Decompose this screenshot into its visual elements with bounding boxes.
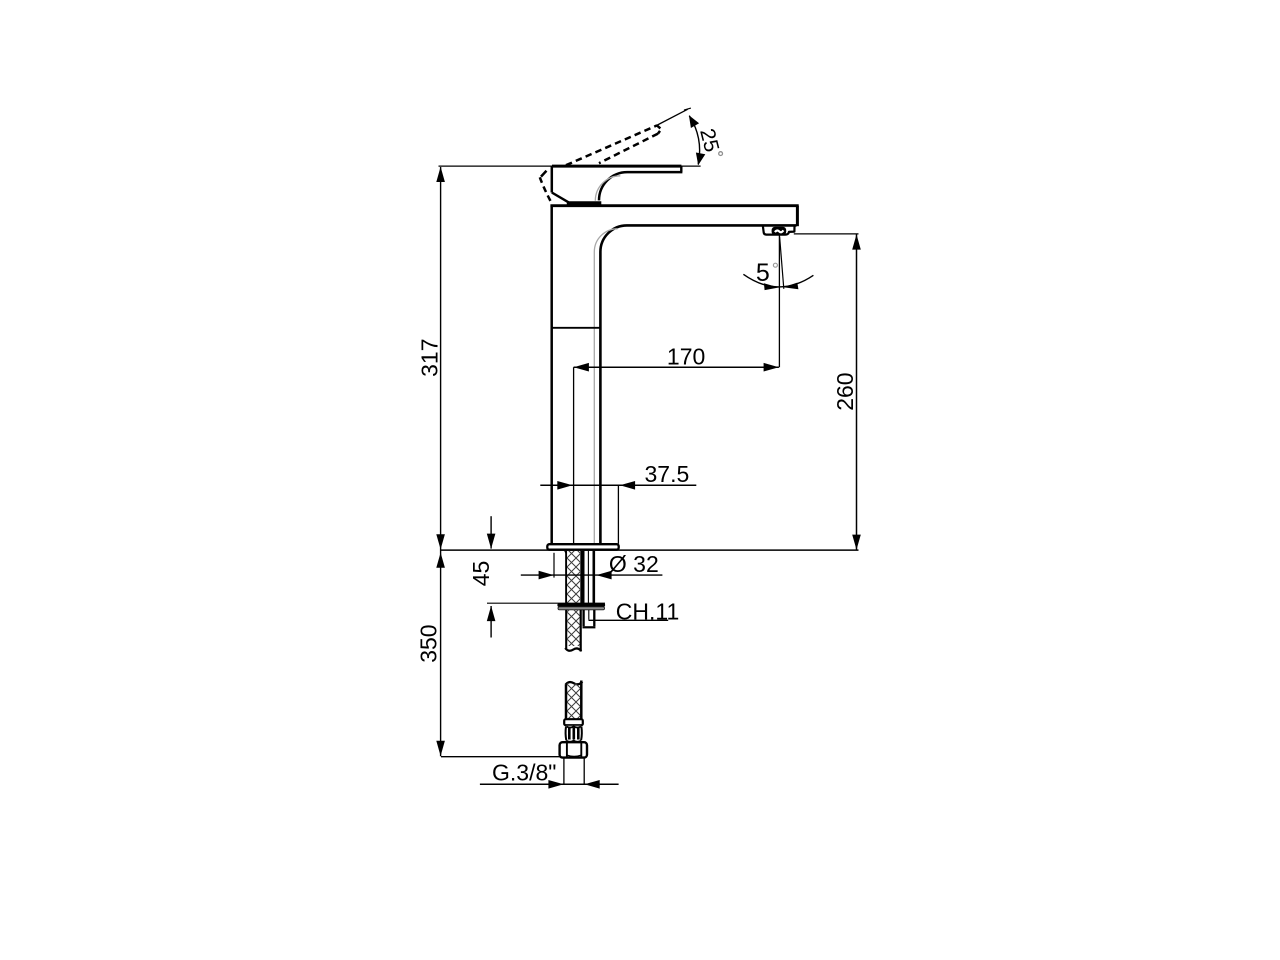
shank hose break wave <box>565 648 581 651</box>
45 dimension line upper segment <box>490 516 492 548</box>
170 right arrowhead <box>764 363 779 372</box>
diameter 32 right arrowhead <box>596 571 611 580</box>
25 degree arc arrowhead upper <box>689 115 699 128</box>
37.5 label <box>645 461 690 487</box>
svg-text:37.5: 37.5 <box>645 461 690 487</box>
lower hose right edge <box>580 681 583 720</box>
faucet handle lever top edge <box>552 165 681 168</box>
350 label <box>416 624 442 662</box>
diameter 32 label <box>609 551 659 577</box>
handle highlight line <box>595 176 620 201</box>
25 degree extension line from lever tip <box>656 108 691 126</box>
diameter 32 left extension line <box>553 553 555 578</box>
317-350 dimension line <box>440 167 442 756</box>
dashed raised handle top edge <box>566 125 657 165</box>
svg-text:45: 45 <box>468 561 494 587</box>
45 dimension line lower segment <box>490 606 492 638</box>
body highlight line <box>594 229 617 543</box>
faucet handle lever underside <box>599 172 682 200</box>
317 top arrowhead <box>436 167 445 182</box>
5 degree tilted axis line <box>780 237 784 289</box>
170 dimension line <box>574 366 779 368</box>
45 label <box>468 561 494 587</box>
aerator housing <box>763 226 795 234</box>
svg-text:170: 170 <box>667 344 705 370</box>
spout underside and body right edge <box>600 225 796 543</box>
5 degree dimension arc <box>743 274 813 287</box>
37.5 right arrowhead <box>620 481 635 490</box>
45 lower arrowhead <box>487 606 496 621</box>
svg-text:350: 350 <box>416 624 442 662</box>
37.5 left arrowhead <box>557 481 572 490</box>
threaded stud inner line upper <box>587 551 589 603</box>
svg-text:317: 317 <box>417 339 443 377</box>
body joint line <box>552 327 600 329</box>
hose crimp section <box>566 726 582 742</box>
spout right end edge <box>796 206 799 227</box>
170 label <box>667 344 705 370</box>
350 bottom arrowhead <box>436 741 445 756</box>
countertop mounting line <box>441 549 859 551</box>
dashed raised skirt edge <box>540 169 552 204</box>
svg-text:5: 5 <box>756 259 770 287</box>
faucet handle lever right end <box>680 166 682 172</box>
CH.11 label <box>616 599 680 625</box>
shank hose right edge upper <box>580 551 584 603</box>
lower hose crosshatch <box>567 683 581 719</box>
hose ferrule collar <box>564 719 583 725</box>
svg-text:G.3/8": G.3/8" <box>492 759 556 785</box>
locknut washer dark bar <box>557 603 605 607</box>
317 label <box>417 339 443 377</box>
svg-text:Ø 32: Ø 32 <box>609 551 659 577</box>
CH.11 leader line <box>589 619 669 621</box>
5 degree right arrowhead <box>783 283 798 290</box>
shank hose left edge middle <box>565 610 567 649</box>
G3/8 right arrowhead <box>585 780 600 789</box>
260 top arrowhead <box>852 234 861 249</box>
shank hose crosshatch middle <box>567 610 580 646</box>
350 bottom extension line <box>441 756 560 758</box>
handle skirt slant edge <box>552 193 569 203</box>
shank hose crosshatch upper <box>567 551 580 603</box>
diameter 32 dimension line <box>521 574 663 576</box>
25 degree arc arrowhead lower <box>696 153 705 166</box>
37.5 right extension line <box>617 485 619 544</box>
5 degree label <box>756 259 778 287</box>
lower hose left edge <box>565 685 568 720</box>
5 degree spout axis vertical line <box>778 235 780 367</box>
faucet axis extension line <box>573 367 575 544</box>
aerator insert <box>772 227 787 235</box>
handle left edge <box>551 166 554 192</box>
body left edge <box>550 206 553 544</box>
dashed raised handle bottom edge <box>599 134 658 164</box>
base flange <box>547 544 618 550</box>
stud hex below locknut <box>583 610 596 628</box>
45 lower extension line <box>487 602 605 604</box>
260 dimension line <box>856 235 858 550</box>
350 top arrowhead <box>436 553 445 568</box>
handle gap shadow band <box>567 201 602 205</box>
lower hose break wave <box>565 682 582 685</box>
260 label <box>832 372 858 410</box>
G3/8 label <box>492 759 556 785</box>
5 degree left arrowhead <box>764 283 779 290</box>
shank hose left edge upper <box>564 551 567 603</box>
locknut washer grey bar <box>558 607 605 610</box>
37.5 dimension line <box>540 484 696 486</box>
svg-text:CH.11: CH.11 <box>616 599 680 625</box>
dashed raised handle tip face <box>657 125 661 133</box>
G3/8 tail pipe <box>564 758 584 784</box>
260 extension line from aerator <box>794 233 859 235</box>
spout body top plate <box>550 204 798 207</box>
shank hose right edge middle <box>580 610 582 652</box>
diameter 32 left arrowhead <box>539 571 554 580</box>
260 bottom arrowhead <box>852 535 861 550</box>
25 degree dimension arc <box>689 116 699 165</box>
G3/8 dimension line <box>480 783 619 785</box>
svg-text:260: 260 <box>832 372 858 410</box>
25 degree label <box>695 126 723 155</box>
G3/8 left arrowhead <box>548 780 563 789</box>
170 left arrowhead <box>574 363 589 372</box>
G3/8 nut <box>560 742 587 757</box>
317 bottom arrowhead <box>436 534 445 549</box>
threaded stud right edge upper <box>592 551 595 603</box>
45 upper arrowhead <box>487 534 496 549</box>
top extension line <box>439 165 701 167</box>
